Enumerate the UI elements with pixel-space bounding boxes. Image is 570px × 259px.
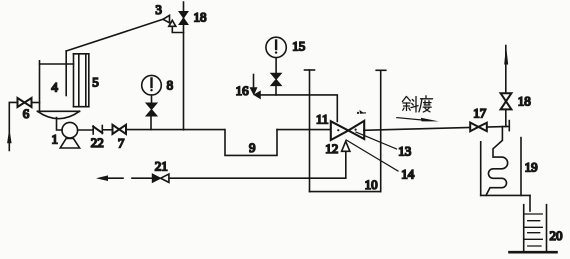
valve 21 [152, 174, 169, 182]
svg-text:22: 22 [91, 135, 104, 150]
wire 22 to 7 [102, 129, 112, 131]
slope annotation 斜度 [402, 96, 432, 112]
beaker 20 [510, 205, 557, 253]
wire main line ejector to right (sloped) [364, 126, 509, 130]
wire outlet arrow segment [96, 175, 123, 181]
svg-text:1: 1 [52, 132, 59, 147]
standpipe right with cap [376, 70, 386, 191]
tiny arrow above ejector [357, 110, 366, 114]
svg-text:15: 15 [292, 39, 305, 54]
wire steam line to ejector top [260, 95, 337, 122]
standpipe left with cap [305, 70, 315, 192]
svg-text:11: 11 [316, 111, 329, 126]
pump 1 [60, 122, 79, 148]
wire vent riser right with up arrow [504, 46, 508, 127]
slope arrow [397, 118, 439, 122]
condenser 5 [74, 54, 89, 107]
wire suction line from nozzle [169, 151, 346, 178]
svg-text:4: 4 [51, 79, 58, 94]
svg-text:13: 13 [398, 144, 411, 159]
dip tube in vessel [65, 51, 67, 96]
wire valve6 to vessel [32, 102, 40, 104]
valve 18 (top) [179, 12, 188, 25]
wire inlet left vertical with up arrow [7, 102, 17, 150]
svg-text:17: 17 [473, 106, 487, 121]
svg-text:16: 16 [236, 83, 250, 98]
wire pump outlet [78, 129, 93, 131]
angle valve 16 [250, 75, 260, 99]
wire vent riser x=183.5 [183, 2, 185, 130]
svg-text:19: 19 [525, 159, 538, 174]
wire suction to outlet arrow [132, 177, 152, 179]
wire drain into beaker [529, 195, 531, 211]
wire end tick [508, 121, 510, 131]
valve 17 [470, 123, 487, 132]
svg-text:10: 10 [365, 177, 378, 192]
gauge 8 with valve [142, 75, 162, 129]
svg-text:14: 14 [401, 167, 415, 182]
leader 14 [346, 140, 398, 171]
angle valve 3 [163, 15, 184, 32]
svg-text:18: 18 [194, 10, 207, 25]
svg-text:7: 7 [118, 135, 125, 150]
nozzle 12 [342, 141, 350, 151]
cooler jacket 19 [481, 138, 530, 196]
check valve 22 [93, 126, 102, 135]
svg-text:18: 18 [518, 94, 531, 109]
wire main line to liquid seal [126, 129, 224, 131]
wire liquid seal 9 [225, 130, 277, 156]
wire slanted vapor line to valve 3 [66, 19, 163, 51]
valve 18 (right) [501, 93, 512, 109]
svg-text:3: 3 [155, 2, 162, 17]
valve 6 [18, 98, 32, 107]
svg-text:20: 20 [550, 228, 563, 243]
coil in cooler [486, 127, 508, 196]
svg-text:9: 9 [249, 140, 256, 155]
svg-text:6: 6 [23, 106, 30, 121]
svg-text:21: 21 [155, 158, 168, 173]
wire vessel outlet to pump [57, 118, 63, 131]
ejector 11 [331, 121, 364, 140]
gauge 15 with valve [266, 37, 286, 95]
wire seal to ejector inlet [277, 129, 331, 131]
vessel 4 [38, 61, 80, 119]
wire loop bottom 10 [310, 191, 381, 193]
svg-text:12: 12 [325, 141, 338, 156]
svg-text:8: 8 [167, 78, 174, 93]
svg-text:5: 5 [92, 74, 99, 89]
leader 13 [356, 132, 397, 149]
valve 7 [113, 125, 127, 134]
